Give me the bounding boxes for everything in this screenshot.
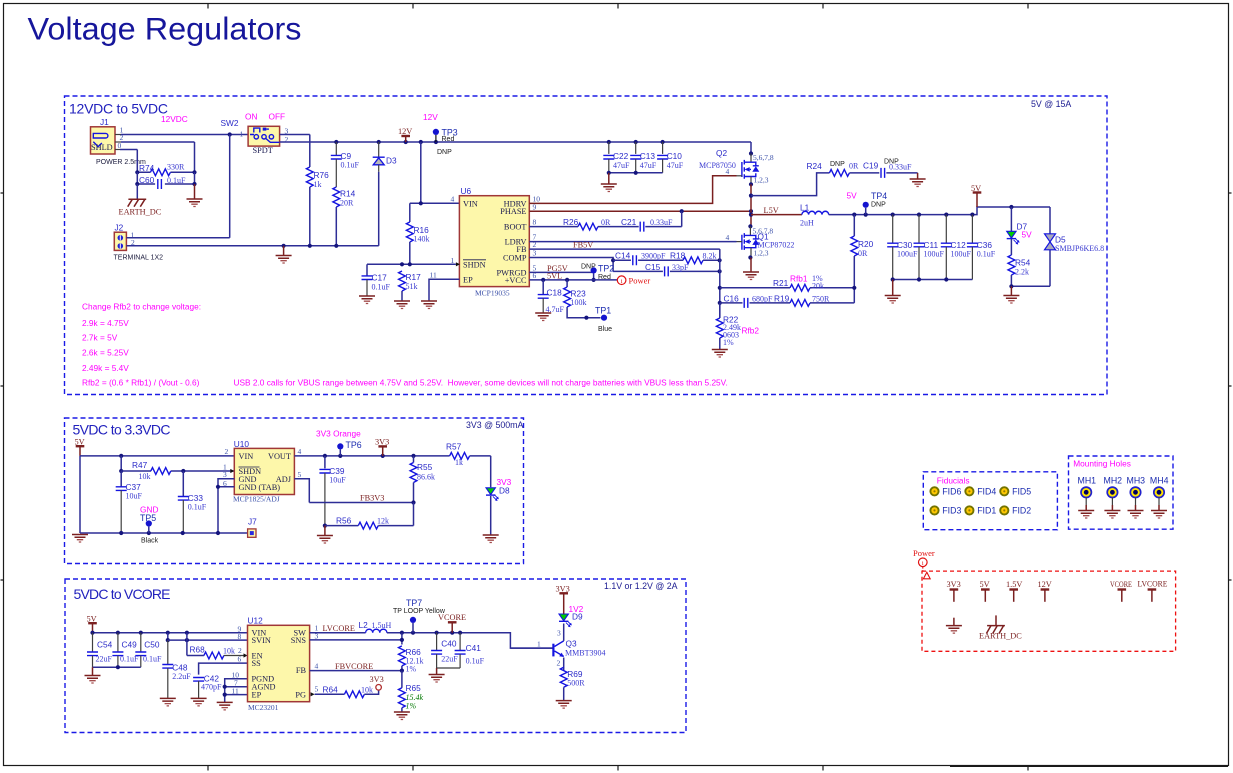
svg-text:Q2: Q2: [716, 148, 727, 158]
svg-text:1%: 1%: [723, 338, 734, 347]
IC U6 MCP19035: [430, 186, 541, 298]
svg-text:i: i: [922, 560, 924, 567]
svg-text:10k: 10k: [223, 647, 235, 656]
port 3V3 open: [370, 675, 384, 690]
resistor R22: [716, 303, 759, 350]
svg-text:500R: 500R: [567, 679, 585, 688]
svg-text:MCP87050: MCP87050: [699, 161, 736, 170]
TVS diode D5: [1045, 207, 1105, 286]
capacitor C13: [630, 142, 657, 173]
svg-text:R14: R14: [340, 189, 356, 199]
svg-text:TP4: TP4: [871, 191, 887, 201]
svg-text:MCP1825/ADJ: MCP1825/ADJ: [233, 495, 280, 504]
wire Q3 collector up: [563, 624, 565, 641]
svg-text:22uF: 22uF: [441, 655, 458, 664]
svg-text:1k: 1k: [314, 180, 322, 189]
svg-text:12VDC to 5VDC: 12VDC to 5VDC: [69, 101, 168, 117]
svg-text:R24: R24: [807, 161, 823, 171]
capacitor C49: [112, 633, 139, 667]
svg-text:USB 2.0 calls for VBUS range b: USB 2.0 calls for VBUS range between 4.7…: [234, 378, 728, 388]
capacitor C54: [87, 633, 113, 667]
svg-text:330R: 330R: [167, 163, 185, 172]
svg-text:1.5uH: 1.5uH: [372, 621, 392, 630]
svg-text:0R: 0R: [849, 162, 859, 171]
svg-text:12V: 12V: [1038, 580, 1052, 589]
svg-text:C40: C40: [441, 639, 457, 649]
svg-text:J1: J1: [100, 117, 109, 127]
wire 5V rail after L1: [829, 205, 1050, 217]
svg-text:0.1uF: 0.1uF: [977, 250, 996, 259]
power 3V3: [375, 438, 389, 456]
svg-text:C50: C50: [144, 640, 160, 650]
svg-text:R76: R76: [314, 170, 330, 180]
svg-text:10uF: 10uF: [126, 492, 143, 501]
svg-text:Rfb2: Rfb2: [742, 326, 760, 336]
resistor R74: [135, 163, 196, 176]
resistor R19: [774, 286, 856, 307]
svg-text:VIN: VIN: [239, 452, 254, 461]
svg-text:2.2k: 2.2k: [1015, 268, 1029, 277]
power 5V: [87, 615, 97, 633]
svg-text:4: 4: [726, 233, 730, 242]
svg-text:C9: C9: [341, 151, 352, 161]
svg-text:R74: R74: [139, 163, 155, 173]
wire PGND AGND EP: [223, 679, 248, 703]
ground at rail: [276, 246, 292, 263]
svg-text:R64: R64: [323, 685, 339, 695]
svg-text:R16: R16: [414, 225, 430, 235]
svg-text:MMBT3904: MMBT3904: [565, 649, 605, 658]
svg-text:SVIN: SVIN: [252, 636, 271, 645]
svg-text:5V: 5V: [980, 580, 990, 589]
svg-text:33pF: 33pF: [672, 263, 689, 272]
wire SNS: [310, 633, 404, 643]
ground at input caps: [85, 667, 101, 683]
ground at C60: [187, 184, 203, 207]
power 1.5V: [1006, 580, 1022, 602]
ground at C39: [317, 526, 333, 543]
wire input caps bottom: [93, 665, 141, 669]
svg-text:20R: 20R: [340, 199, 354, 208]
svg-text:8.2k: 8.2k: [703, 251, 717, 260]
svg-text:C37: C37: [126, 482, 142, 492]
svg-text:R56: R56: [336, 516, 352, 526]
svg-text:3V3: 3V3: [375, 438, 389, 447]
section box Power red: [922, 571, 1176, 651]
resistor R66: [399, 643, 424, 674]
svg-text:SNS: SNS: [291, 636, 307, 645]
resistor R20: [851, 215, 874, 288]
svg-text:R47: R47: [132, 460, 148, 470]
fiducial FID1: [965, 506, 996, 516]
svg-text:ADJ: ADJ: [276, 475, 292, 484]
svg-text:0.1uF: 0.1uF: [167, 176, 186, 185]
svg-text:51k: 51k: [406, 282, 418, 291]
wire 5V to U12 VIN: [90, 631, 247, 635]
svg-text:Rfb1: Rfb1: [790, 274, 808, 284]
svg-text:0.1uF: 0.1uF: [372, 283, 391, 292]
IC U10 MCP1825: [233, 439, 302, 504]
svg-text:6: 6: [238, 655, 242, 664]
section box Mounting Holes: [1069, 456, 1174, 529]
svg-text:C12: C12: [951, 240, 967, 250]
svg-text:5V @ 15A: 5V @ 15A: [1031, 99, 1071, 109]
inductor L1: [751, 203, 829, 228]
power LVCORE: [1138, 580, 1168, 602]
resistor R14: [333, 187, 356, 246]
wire left vertical: [79, 456, 81, 533]
svg-text:VIN: VIN: [463, 199, 478, 208]
svg-text:D3: D3: [386, 156, 397, 166]
svg-text:100uF: 100uF: [897, 250, 918, 259]
LED D9: [559, 604, 584, 627]
svg-text:R17: R17: [406, 272, 422, 282]
svg-text:MC23201: MC23201: [248, 703, 279, 712]
power 12V: [398, 127, 412, 142]
svg-text:2.6k = 5.25V: 2.6k = 5.25V: [82, 348, 129, 358]
svg-text:R26: R26: [563, 217, 579, 227]
ground at EP: [421, 301, 437, 309]
testpoint TP7: [393, 598, 446, 633]
svg-text:1%: 1%: [406, 702, 417, 711]
svg-text:47uF: 47uF: [613, 161, 630, 170]
section box 5VDC to 3.3VDC: [65, 418, 524, 564]
svg-text:DNP: DNP: [437, 149, 452, 156]
svg-text:C10: C10: [667, 151, 683, 161]
svg-text:R18: R18: [670, 250, 686, 260]
power 5V: [980, 580, 990, 602]
svg-text:12V: 12V: [423, 112, 438, 122]
svg-text:Mounting Holes: Mounting Holes: [1073, 459, 1131, 469]
svg-text:100uF: 100uF: [951, 250, 972, 259]
testpoint TP6: [337, 440, 362, 456]
section box 5VDC to VCORE: [65, 579, 686, 733]
capacitor C50: [135, 633, 162, 667]
svg-text:VOUT: VOUT: [268, 452, 291, 461]
power 3V3: [947, 580, 961, 602]
svg-text:3V3: 3V3: [947, 580, 961, 589]
wire 12V to U6 VIN: [410, 142, 460, 222]
LED D8: [486, 477, 512, 535]
svg-text:C36: C36: [977, 240, 993, 250]
wire J2.1: [126, 237, 229, 239]
resistor R69: [560, 667, 585, 700]
svg-text:Black: Black: [141, 538, 159, 545]
svg-text:C17: C17: [372, 273, 388, 283]
mounting hole MH4: [1150, 476, 1169, 519]
svg-text:1k: 1k: [455, 458, 463, 467]
capacitor C14: [611, 250, 683, 265]
svg-text:680pF: 680pF: [752, 294, 773, 303]
svg-text:DNP: DNP: [581, 264, 596, 271]
wire SVIN: [168, 638, 248, 642]
svg-text:5V: 5V: [847, 191, 858, 201]
resistor R21: [720, 274, 855, 292]
svg-text:C60: C60: [139, 175, 155, 185]
svg-text:140k: 140k: [414, 235, 430, 244]
svg-text:1: 1: [537, 639, 541, 648]
svg-text:U6: U6: [461, 186, 472, 196]
power VCORE: [438, 613, 466, 633]
svg-text:BOOT: BOOT: [504, 223, 527, 232]
capacitor C39: [319, 456, 346, 526]
ground at D8: [483, 535, 499, 543]
svg-text:R54: R54: [1015, 258, 1031, 268]
IC U12 MC23201: [232, 616, 310, 713]
mounting hole MH3: [1127, 476, 1146, 519]
svg-text:5VDC to VCORE: 5VDC to VCORE: [74, 586, 171, 602]
capacitor C22: [603, 142, 630, 173]
svg-text:SPDT: SPDT: [253, 146, 273, 155]
ground at C17: [359, 296, 375, 304]
power VCORE: [1110, 580, 1132, 602]
capacitor C33: [178, 471, 207, 533]
wire ADJ to FB3V3: [294, 479, 415, 505]
svg-text:12VDC: 12VDC: [161, 114, 188, 124]
resistor R16: [406, 222, 429, 264]
svg-text:0.1uF: 0.1uF: [341, 161, 360, 170]
svg-text:0R: 0R: [601, 218, 611, 227]
svg-text:2: 2: [225, 447, 229, 456]
capacitor C21: [598, 211, 682, 231]
wire FB / FBVCORE: [310, 662, 404, 673]
ground at U12: [217, 702, 233, 710]
wire U10 GND pins: [216, 479, 234, 533]
svg-text:C48: C48: [172, 663, 188, 673]
svg-text:1,2,3: 1,2,3: [754, 176, 769, 185]
power 5V: [75, 438, 85, 456]
capacitor C19: [849, 159, 917, 178]
svg-text:L2: L2: [359, 620, 369, 630]
svg-text:FB3V3: FB3V3: [360, 494, 384, 503]
wire 12V rail (SW2.2 east): [280, 140, 751, 144]
svg-text:TP5: TP5: [140, 513, 156, 523]
svg-text:86.6k: 86.6k: [417, 473, 435, 482]
svg-text:Blue: Blue: [598, 326, 612, 333]
svg-text:D9: D9: [572, 612, 583, 622]
svg-text:EP: EP: [252, 691, 262, 700]
svg-text:1.1V or 1.2V @ 2A: 1.1V or 1.2V @ 2A: [604, 581, 678, 591]
wire J1.2 to RC filter: [115, 142, 195, 172]
ground at cap bank: [601, 173, 617, 192]
svg-text:C21: C21: [621, 217, 637, 227]
svg-text:ON: ON: [245, 112, 257, 122]
wire PWRGD / PG5V: [529, 264, 593, 273]
svg-text:Fiducials: Fiducials: [937, 476, 970, 486]
svg-text:MCP19035: MCP19035: [475, 289, 510, 298]
svg-text:R69: R69: [567, 669, 583, 679]
svg-text:LVCORE: LVCORE: [1138, 580, 1168, 589]
svg-text:C30: C30: [897, 240, 913, 250]
ground at C40: [429, 668, 445, 682]
svg-text:U12: U12: [248, 616, 264, 626]
wire EP pin: [429, 279, 459, 301]
svg-text:Rfb2 = (0.6 * Rfb1) / (Vout -: Rfb2 = (0.6 * Rfb1) / (Vout - 0.6): [82, 378, 200, 388]
capacitor C41: [437, 633, 485, 668]
svg-text:0.1uF: 0.1uF: [188, 503, 207, 512]
wire HDRV to Q2 gate: [529, 176, 736, 204]
capacitor C48: [162, 633, 191, 699]
svg-text:3V3: 3V3: [370, 675, 384, 684]
wire J1.1 to SW2.1: [115, 132, 248, 136]
svg-text:5,6,7,8: 5,6,7,8: [753, 153, 774, 162]
ground at C18: [535, 313, 551, 321]
svg-text:DNP: DNP: [830, 161, 845, 168]
svg-text:C54: C54: [97, 640, 113, 650]
svg-text:R20: R20: [858, 239, 874, 249]
mounting hole MH1: [1078, 476, 1097, 519]
capacitor C36: [967, 215, 996, 280]
svg-text:TP1: TP1: [595, 306, 611, 316]
connector J7: [248, 517, 258, 538]
capacitor C17: [362, 264, 391, 295]
svg-text:FID3: FID3: [942, 506, 961, 516]
ground at output caps: [885, 280, 901, 304]
svg-text:MH3: MH3: [1127, 476, 1146, 486]
svg-text:10k: 10k: [139, 472, 151, 481]
section box 12VDC to 5VDC: [65, 96, 1108, 395]
ground at R65: [394, 712, 410, 720]
transistor Q3 MMBT3904: [553, 629, 605, 668]
ground at C42: [191, 698, 207, 706]
svg-text:PHASE: PHASE: [500, 207, 526, 216]
svg-text:1%: 1%: [406, 665, 417, 674]
resistor R64 / PG: [311, 685, 379, 698]
wire 5V to U10 VIN: [80, 447, 234, 458]
svg-text:C33: C33: [188, 493, 204, 503]
wire SW2.3 to R76: [280, 135, 310, 168]
svg-text:1.5V: 1.5V: [1006, 580, 1022, 589]
svg-text:C39: C39: [329, 466, 345, 476]
svg-text:PG: PG: [295, 691, 306, 700]
svg-text:J2: J2: [115, 223, 124, 233]
svg-text:TP7: TP7: [406, 598, 422, 608]
svg-text:EARTH_DC: EARTH_DC: [979, 632, 1022, 641]
wire COMP: [529, 258, 613, 272]
resistor R54: [1008, 239, 1031, 286]
svg-text:TERMINAL 1X2: TERMINAL 1X2: [114, 255, 164, 262]
svg-text:C13: C13: [640, 151, 656, 161]
inductor L2: [359, 620, 392, 633]
note text magenta: [82, 302, 728, 388]
resistor R23: [564, 280, 601, 320]
capacitor C10: [657, 142, 684, 173]
svg-text:Red: Red: [442, 136, 455, 143]
wire bottom gnd rail: [80, 531, 252, 535]
svg-text:4: 4: [451, 195, 455, 204]
svg-text:3V3 @ 500mA: 3V3 @ 500mA: [466, 420, 523, 430]
svg-text:5: 5: [315, 685, 319, 694]
ground at R22: [712, 350, 728, 358]
resistor R76: [306, 167, 329, 246]
resistor R17: [399, 271, 422, 301]
wire FB (FB5V): [529, 241, 720, 250]
svg-text:3: 3: [557, 629, 561, 638]
fiducial FID6: [930, 487, 961, 497]
svg-text:C16: C16: [724, 293, 740, 303]
svg-text:FB5V: FB5V: [573, 241, 593, 250]
capacitor C11: [914, 215, 945, 280]
capacitor C30: [887, 215, 918, 280]
svg-text:1,2,3: 1,2,3: [754, 249, 769, 258]
testpoint TP2: [581, 264, 614, 283]
svg-text:SMBJP6KE6.8: SMBJP6KE6.8: [1055, 244, 1104, 253]
capacitor C16: [720, 293, 790, 308]
svg-text:5: 5: [298, 470, 302, 479]
port Power sheet entry: [913, 548, 935, 579]
svg-text:2.7k = 5V: 2.7k = 5V: [82, 333, 118, 343]
resistor R68: [187, 633, 248, 659]
svg-text:J7: J7: [248, 517, 257, 527]
wire SHDN row: [367, 262, 456, 266]
svg-text:10k: 10k: [361, 686, 373, 695]
svg-text:VCORE: VCORE: [438, 613, 466, 622]
svg-text:R55: R55: [417, 462, 433, 472]
wire VOUT rail: [294, 454, 449, 458]
svg-text:FID1: FID1: [977, 506, 996, 516]
svg-text:C22: C22: [613, 151, 629, 161]
svg-text:11: 11: [232, 687, 239, 696]
ground at R69: [556, 701, 572, 709]
svg-text:Voltage Regulators: Voltage Regulators: [28, 11, 302, 47]
capacitor C40: [431, 633, 458, 668]
capacitor C9: [331, 142, 360, 187]
svg-text:VCORE: VCORE: [1110, 580, 1132, 589]
wire Q2 source node: [749, 177, 753, 227]
resistor R57: [446, 442, 491, 488]
svg-text:2.49k = 5.4V: 2.49k = 5.4V: [82, 363, 129, 373]
svg-text:EARTH_DC: EARTH_DC: [119, 208, 162, 217]
svg-text:3: 3: [223, 470, 227, 479]
section box Fiducials: [923, 472, 1057, 530]
svg-text:FID6: FID6: [942, 487, 961, 497]
svg-text:FID2: FID2: [1012, 506, 1031, 516]
svg-text:COMP: COMP: [503, 254, 527, 263]
LED D7: [1007, 207, 1032, 245]
svg-text:SW2: SW2: [221, 118, 239, 128]
svg-text:C19: C19: [863, 161, 879, 171]
ground in power box: [946, 618, 962, 633]
resistor R55: [410, 456, 435, 503]
fiducial FID5: [1000, 487, 1031, 497]
svg-text:MH2: MH2: [1104, 476, 1123, 486]
svg-text:0R: 0R: [858, 249, 868, 258]
svg-text:22uF: 22uF: [96, 655, 113, 664]
earth EARTH_DC: [119, 184, 162, 217]
ground at C48: [160, 698, 176, 706]
ground at Q1: [743, 272, 759, 280]
svg-text:2.9k = 4.75V: 2.9k = 4.75V: [82, 318, 129, 328]
testpoint TP4: [863, 191, 888, 215]
svg-text:C14: C14: [615, 250, 631, 260]
svg-text:8: 8: [238, 632, 242, 641]
wire +VCC / 5VL: [529, 271, 617, 282]
svg-text:FB: FB: [296, 666, 307, 675]
svg-text:5VDC to 3.3VDC: 5VDC to 3.3VDC: [73, 422, 171, 438]
svg-text:MH1: MH1: [1078, 476, 1097, 486]
wire 12V rail to Q2 drain: [749, 142, 753, 162]
svg-text:8: 8: [533, 218, 537, 227]
power 12V: [1038, 580, 1052, 602]
transistor Q2 MCP87050: [699, 148, 774, 185]
svg-text:DNP: DNP: [871, 202, 886, 209]
svg-text:1: 1: [240, 130, 244, 139]
wire cap bank bottom: [607, 171, 663, 175]
svg-text:C49: C49: [122, 640, 138, 650]
power 5V: [971, 184, 981, 207]
connector J2: [114, 223, 164, 262]
svg-text:47uF: 47uF: [667, 161, 684, 170]
